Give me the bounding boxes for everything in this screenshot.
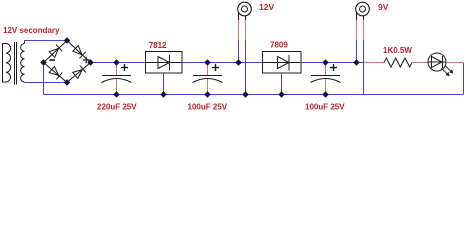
regulator U1 7812 [146,52,183,74]
node: C1 bottom [113,91,119,97]
svg-text:1K0.5W: 1K0.5W [383,46,412,55]
wire: transformer top to bridge top node [25,40,68,42]
wire: transformer bottom to bridge bottom node [25,82,68,84]
diode bottom-right [73,66,86,79]
pin: 12V terminal legs (upper) [239,20,246,40]
minus sign at bridge left [50,59,56,61]
svg-text:7809: 7809 [270,41,288,50]
wire: top positive rail [91,62,365,64]
node: C2 bottom [204,91,210,97]
svg-text:12V: 12V [259,2,274,12]
LED arrows [441,66,452,76]
svg-text:7812: 7812 [149,41,167,50]
pin: resistor right lead [412,62,428,64]
svg-text:100uF 25V: 100uF 25V [305,103,345,112]
core line left [14,42,16,85]
wire: 12V terminal left leg [238,40,240,63]
bridge side bottom-left [44,63,68,83]
primary winding [6,44,11,83]
node: 7809 ground [278,91,284,97]
secondary top lead [24,41,26,44]
plus sign at bridge right [83,57,90,64]
diode bottom-left [49,67,62,80]
wire: 9V terminal left leg [356,40,358,63]
terminal J2 9V output [356,2,370,20]
svg-text:9V: 9V [378,2,389,12]
wire: 7809 ground pin [281,73,283,95]
resistor R1 1K 0.5W [384,58,412,67]
svg-text:100uF 25V: 100uF 25V [188,103,228,112]
node: 12V tap [235,59,242,66]
capacitor C1 220uF 25V [102,63,132,95]
pin: LED right lead [446,62,463,64]
node: 12V return [242,91,248,97]
capacitor C2 100uF 25V [193,63,223,95]
wire: 9V terminal right leg to ground [363,40,365,95]
core line right [16,42,18,85]
node: bridge bottom [64,79,71,86]
node: bridge left [40,59,47,66]
wire: right edge return [463,63,465,95]
node: C1 top [113,59,119,65]
primary leads [3,44,7,83]
svg-text:220uF 25V: 220uF 25V [97,103,137,112]
pin: 9V terminal legs (upper) [357,20,364,40]
capacitor C3 100uF 25V [311,63,341,95]
node: 9V tap [353,59,360,66]
bridge rectifier D1-D4 [44,41,91,83]
bridge side top-right [67,41,91,63]
node: C3 top [322,59,328,65]
node: bridge top [64,37,71,44]
diode top-right [73,46,86,59]
wire: bridge left node down to ground rail [43,63,45,95]
wire: 12V terminal right leg to ground [245,40,247,95]
diode top-left [49,45,62,58]
node: bridge right [87,59,94,66]
transformer T1 12V secondary [3,41,25,85]
svg-text:12V secondary: 12V secondary [3,26,60,35]
wire: bottom ground rail [44,94,464,96]
node: C3 bottom [322,91,328,97]
node: C2 top [204,59,210,65]
secondary winding [21,44,25,83]
terminal J1 12V output [238,2,252,20]
bridge side bottom-right [67,63,91,83]
LED D5 [428,53,446,71]
regulator U2 7809 [263,52,302,74]
bridge side top-left [44,41,68,63]
pin: resistor left lead [364,62,384,64]
wire: 7812 ground pin [163,73,165,95]
node: 7812 ground [160,91,166,97]
